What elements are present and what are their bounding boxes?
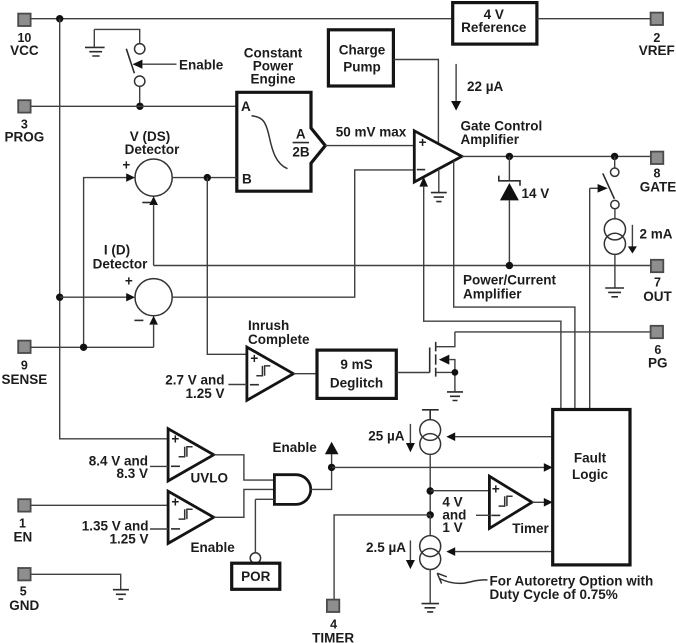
svg-text:VCC: VCC <box>10 43 39 58</box>
node timer plus junction <box>427 487 434 494</box>
label 8.4V and 8.3V <box>89 453 148 481</box>
svg-text:5: 5 <box>20 585 27 599</box>
svg-text:Reference: Reference <box>461 20 527 35</box>
wire reference to VREF <box>537 18 651 20</box>
comparator U8 inrush <box>247 347 294 400</box>
svg-text:GATE: GATE <box>640 180 676 195</box>
svg-text:+: + <box>125 273 133 288</box>
wire V(DS) out to B input <box>172 177 237 179</box>
wire VCC rail to I(D) plus <box>60 293 135 301</box>
svg-text:14 V: 14 V <box>522 186 550 201</box>
node enable junction <box>328 464 335 471</box>
svg-text:2 mA: 2 mA <box>640 226 673 241</box>
svg-text:+: + <box>250 351 258 366</box>
wire threshold to enable minus <box>150 528 168 530</box>
node SENSE junction <box>80 344 87 351</box>
wire GND pin to ground <box>31 574 121 589</box>
svg-text:+: + <box>492 481 500 496</box>
wire timer node to pin 4 <box>334 515 430 600</box>
svg-text:A: A <box>241 99 251 114</box>
wire PROG to A input <box>31 105 237 107</box>
label Enable (switch) with arrow <box>133 58 224 73</box>
I(D) detector U6 <box>93 242 173 320</box>
svg-text:9: 9 <box>21 359 28 373</box>
charge pump U3 <box>328 30 393 86</box>
wire AND out to enable node <box>311 454 332 489</box>
wire inrush out to deglitch <box>293 373 317 375</box>
svg-text:For Autoretry Option with: For Autoretry Option with <box>490 573 654 588</box>
transistor Q1 PG fet <box>430 332 459 392</box>
comparator U11 enable <box>168 491 235 555</box>
ground (gate amp) <box>431 169 447 202</box>
svg-text:+: + <box>171 432 179 447</box>
svg-text:1 V: 1 V <box>442 520 462 535</box>
svg-text:+: + <box>419 135 427 150</box>
wire fault logic up-arrow into gate amp <box>419 177 561 410</box>
svg-text:+: + <box>171 494 179 509</box>
node switch to PROG junction <box>136 103 143 110</box>
wire timer minus stub <box>476 514 489 516</box>
pin 5 GND <box>9 568 39 613</box>
label 2.7V and 1.25V <box>165 372 224 401</box>
label power/current amplifier <box>463 272 557 301</box>
wire fault logic to 2.5uA arrow <box>446 547 552 556</box>
ground (enable switch) <box>85 29 105 56</box>
svg-text:B: B <box>242 172 252 187</box>
wire 25uA to timer node <box>429 454 431 515</box>
power tick (25uA source) <box>422 410 439 420</box>
comparator U14 timer <box>489 476 549 536</box>
deglitch U9 <box>317 350 396 398</box>
svg-text:Logic: Logic <box>572 467 608 482</box>
fault logic U15 <box>553 410 630 565</box>
wire SENSE <box>31 346 154 348</box>
wire I(D) minus to SENSE <box>149 316 158 348</box>
wire deglitch to PG fet gate <box>396 372 429 374</box>
node V(DS) out junction <box>204 174 211 181</box>
svg-text:2B: 2B <box>292 144 310 159</box>
svg-text:22 µA: 22 µA <box>467 79 504 94</box>
svg-text:Timer: Timer <box>512 521 549 536</box>
wire SENSE rail to V(DS) plus <box>84 173 135 347</box>
wire charge pump to op-amp supply <box>393 60 438 145</box>
svg-text:+: + <box>122 157 130 172</box>
svg-text:8.3 V: 8.3 V <box>116 466 148 481</box>
wire enable comp out to AND <box>214 489 275 517</box>
op-amp U7 gate control amplifier <box>414 118 542 182</box>
wire threshold to UVLO minus <box>150 465 168 467</box>
wire POR to AND <box>255 499 274 553</box>
pin 8 GATE <box>640 152 676 195</box>
svg-text:Complete: Complete <box>248 332 310 347</box>
svg-text:Fault: Fault <box>574 450 607 465</box>
svg-text:Enable: Enable <box>179 58 224 73</box>
svg-text:A: A <box>296 126 306 141</box>
label Enable (node) with up arrow <box>273 440 339 455</box>
label 4V and 1V <box>442 495 466 535</box>
ground (GND pin) <box>113 590 129 599</box>
svg-text:Amplifier: Amplifier <box>461 132 520 147</box>
POR bubble <box>250 553 260 563</box>
node gate switch junction <box>611 153 618 160</box>
svg-text:EN: EN <box>14 529 33 544</box>
current source arrow 22uA <box>451 64 503 111</box>
wire OUT rail <box>154 265 651 267</box>
svg-text:Detector: Detector <box>93 256 149 271</box>
node OUT junction <box>506 262 513 269</box>
current source I2 25uA <box>368 420 440 455</box>
constant power engine U4 <box>237 45 325 191</box>
svg-text:OUT: OUT <box>643 289 672 304</box>
svg-text:2.7 V and: 2.7 V and <box>165 372 224 387</box>
pin 7 OUT <box>643 260 672 304</box>
wire threshold to inrush minus <box>228 384 247 386</box>
pin 2 VREF <box>639 13 675 58</box>
svg-text:2.5 µA: 2.5 µA <box>366 540 406 555</box>
wire PG line <box>455 331 651 333</box>
pin 4 TIMER <box>312 600 354 643</box>
wire junction down to inrush comparator <box>207 178 247 355</box>
node timer pin junction <box>427 511 434 518</box>
pin 6 PG <box>648 326 668 371</box>
pin 3 PROG <box>5 100 45 145</box>
gate U12 AND <box>274 475 310 505</box>
svg-text:GND: GND <box>9 598 39 613</box>
svg-text:PG: PG <box>648 356 668 371</box>
4V reference U2 <box>453 3 537 45</box>
wire timer out to fault logic <box>532 498 553 507</box>
svg-text:Detector: Detector <box>125 142 181 157</box>
svg-text:I (D): I (D) <box>104 242 130 257</box>
wire ground to switch <box>94 29 139 43</box>
node gate node junction <box>506 153 513 160</box>
pin 10 VCC <box>10 14 39 58</box>
svg-text:1.25 V: 1.25 V <box>185 386 224 401</box>
switch S1 (enable) <box>126 44 145 107</box>
svg-text:PROG: PROG <box>5 130 45 145</box>
svg-text:SENSE: SENSE <box>2 372 48 387</box>
svg-text:POR: POR <box>241 569 271 584</box>
comparator U10 UVLO <box>168 429 228 486</box>
pin 1 EN <box>14 499 33 544</box>
svg-text:Deglitch: Deglitch <box>330 376 383 391</box>
wire fault logic to 25uA arrow <box>446 432 552 441</box>
svg-text:Pump: Pump <box>343 60 381 75</box>
POR U13 <box>232 563 280 589</box>
ground (PG fet) <box>447 392 463 401</box>
current source I1 2mA <box>604 219 672 288</box>
pin 9 SENSE <box>2 341 48 387</box>
current source I3 2.5uA <box>366 536 441 570</box>
wire 25uA node down to 2.5uA <box>429 515 431 536</box>
wire enable to fault logic <box>332 463 553 472</box>
wire UVLO out to AND <box>214 455 275 480</box>
wire EN to enable comparator <box>31 504 169 506</box>
svg-text:Charge: Charge <box>339 43 386 58</box>
wire 2.5uA to ground <box>429 570 431 604</box>
svg-text:VREF: VREF <box>639 43 675 58</box>
node VCC to I(D) junction <box>56 294 63 301</box>
wire V(DS) minus to OUT rail <box>149 196 158 265</box>
svg-text:1.25 V: 1.25 V <box>109 531 148 546</box>
wire CPE output to gate amp plus <box>325 145 414 147</box>
wire gate amp output rail <box>462 155 651 157</box>
wire fault logic to gate switch arrow <box>590 184 608 410</box>
svg-text:50 mV max: 50 mV max <box>336 125 407 140</box>
ground (2mA source) <box>605 288 624 297</box>
svg-text:7: 7 <box>654 276 661 290</box>
label for autoretry callout <box>437 573 653 602</box>
wire VCC left rail down to UVLO <box>60 19 168 439</box>
switch S2 (gate pulldown) <box>603 156 619 218</box>
zener D1 14V <box>499 156 549 265</box>
label 1.35V and 1.25V <box>82 519 149 547</box>
wire VCC top rail <box>31 18 453 20</box>
node VCC junction <box>56 15 63 22</box>
V(DS) detector U5 <box>122 129 180 203</box>
svg-text:TIMER: TIMER <box>312 630 354 643</box>
svg-text:25 µA: 25 µA <box>368 429 405 444</box>
svg-text:Enable: Enable <box>273 440 318 455</box>
wire I(D) out to gate amp minus <box>172 170 414 297</box>
label inrush complete <box>248 318 310 347</box>
wire timer node to timer comparator <box>430 490 489 492</box>
svg-text:Engine: Engine <box>250 72 295 87</box>
svg-text:9 mS: 9 mS <box>340 357 372 372</box>
svg-text:Duty Cycle of 0.75%: Duty Cycle of 0.75% <box>490 587 618 602</box>
svg-text:UVLO: UVLO <box>191 471 229 486</box>
ground (timer source) <box>422 604 440 612</box>
svg-text:Power/Current: Power/Current <box>463 272 557 287</box>
svg-text:Inrush: Inrush <box>248 318 289 333</box>
svg-text:8: 8 <box>654 167 661 181</box>
wire gate amp output down to fault logic <box>454 161 575 410</box>
svg-text:Enable: Enable <box>191 540 236 555</box>
svg-text:Amplifier: Amplifier <box>463 286 522 301</box>
